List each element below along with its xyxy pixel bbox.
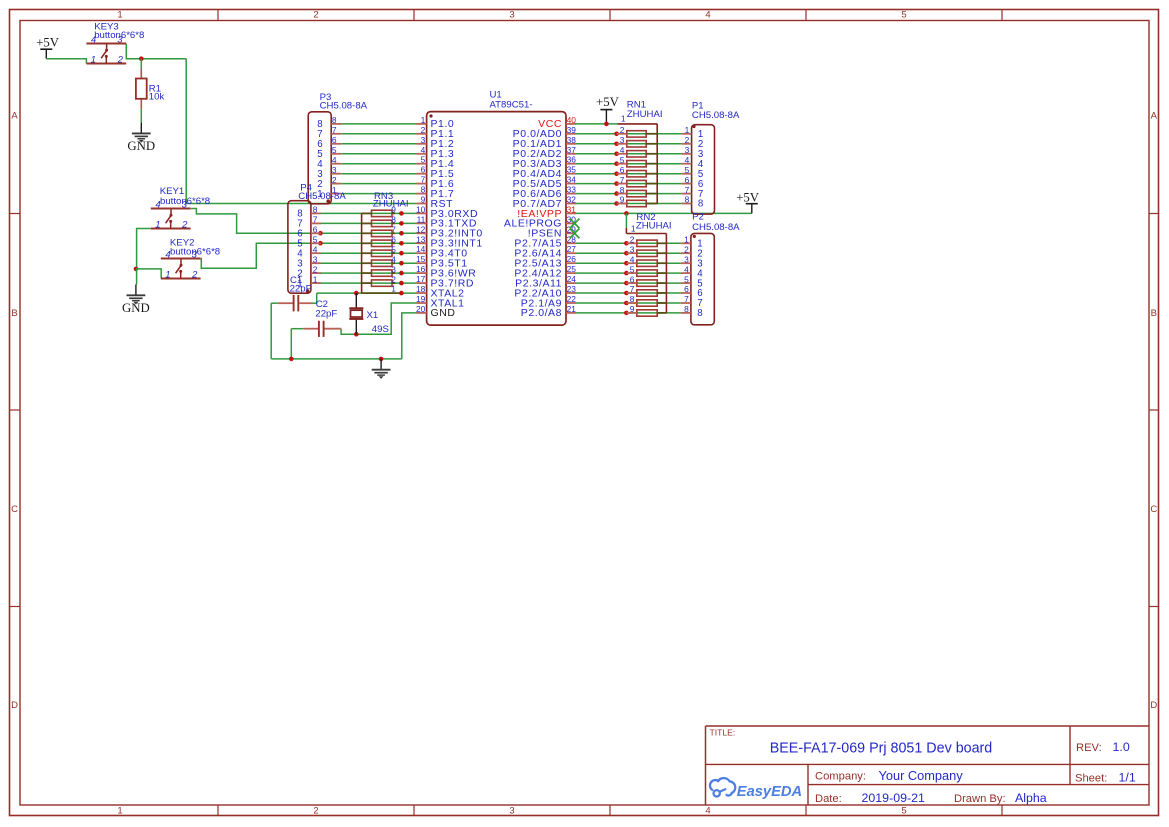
svg-text:1: 1 [621, 113, 626, 123]
svg-text:CH5.08-8A: CH5.08-8A [692, 110, 740, 121]
svg-text:8: 8 [620, 185, 625, 195]
svg-text:6: 6 [391, 235, 396, 245]
svg-text:2: 2 [421, 125, 426, 135]
no-connect marks pins 30/29 [570, 219, 580, 239]
svg-text:+5V: +5V [596, 95, 620, 109]
svg-text:11: 11 [417, 214, 426, 224]
svg-text:21: 21 [567, 304, 577, 314]
svg-text:49S: 49S [372, 324, 389, 335]
svg-text:7: 7 [391, 225, 396, 235]
svg-text:22: 22 [567, 294, 577, 304]
capacitor C1 [278, 295, 313, 312]
title text [770, 741, 993, 757]
wires P3 to U1 P1.0-P1.7 [341, 124, 416, 194]
svg-text:12: 12 [416, 224, 426, 234]
company field [815, 768, 963, 783]
svg-text:2: 2 [313, 806, 318, 817]
svg-text:7: 7 [332, 125, 337, 135]
P2 labels [692, 212, 740, 233]
P3 anchor dot [326, 199, 330, 203]
svg-text:8: 8 [698, 199, 703, 210]
wire VCC to +5V [576, 123, 617, 125]
P1 anchor dot [692, 125, 695, 128]
junction X1 top [354, 291, 359, 296]
wire C2 to XTAL1 [341, 303, 416, 334]
connector P3 [308, 112, 341, 204]
KEY3 labels [94, 21, 144, 41]
KEY3 pin numbers [91, 34, 124, 65]
P4 labels [298, 183, 346, 203]
svg-text:18: 18 [416, 284, 426, 294]
svg-text:1: 1 [91, 54, 96, 65]
svg-text:5: 5 [391, 244, 396, 254]
svg-text:10: 10 [416, 204, 426, 214]
svg-text:38: 38 [567, 135, 577, 145]
svg-text:Drawn By:: Drawn By: [954, 793, 1006, 805]
svg-text:Date:: Date: [815, 793, 842, 805]
svg-text:1: 1 [117, 10, 122, 21]
wire C1 to GND rail [270, 303, 272, 359]
R1 labels [149, 83, 165, 102]
svg-text:GND: GND [122, 301, 150, 315]
wire C1 right [313, 302, 317, 304]
junction X1 bottom [354, 332, 359, 337]
svg-text:4: 4 [391, 254, 396, 264]
P4 pin numbers [297, 205, 317, 290]
svg-text:16: 16 [416, 264, 426, 274]
svg-text:6: 6 [685, 175, 690, 185]
junction GND rail [379, 357, 384, 362]
svg-text:B: B [11, 308, 17, 319]
P3 pin numbers [317, 115, 337, 200]
junction RN2 pin1 [624, 211, 629, 216]
svg-text:2: 2 [684, 244, 689, 254]
X1 labels [367, 310, 389, 335]
IC U1 AT89C51 [417, 112, 577, 326]
svg-text:4: 4 [332, 155, 337, 165]
U1 left pin numbers [416, 115, 426, 314]
svg-text:8: 8 [684, 304, 689, 314]
svg-text:5: 5 [421, 155, 426, 165]
svg-text:23: 23 [567, 284, 577, 294]
junction node KEY GND [134, 267, 139, 272]
svg-text:button6*6*8: button6*6*8 [94, 30, 144, 41]
U1 right pin names [504, 118, 562, 319]
svg-text:Alpha: Alpha [1015, 791, 1047, 805]
svg-text:1/1: 1/1 [1119, 771, 1136, 785]
pushbutton KEY3 [86, 44, 126, 64]
junction C2 GND [289, 357, 294, 362]
svg-text:Sheet:: Sheet: [1075, 773, 1107, 785]
svg-text:2: 2 [332, 175, 337, 185]
wire GND rail to U1 GND pin [402, 313, 417, 359]
svg-text:4: 4 [705, 806, 710, 817]
svg-text:4: 4 [620, 145, 625, 155]
wire +5V to KEY3 pin1 [46, 59, 86, 64]
RN3 pin numbers [391, 205, 396, 294]
wires U1 P0 port to RN1 and P1 [576, 134, 682, 204]
svg-text:5: 5 [685, 165, 690, 175]
svg-text:3: 3 [509, 806, 514, 817]
U1 right pin numbers [567, 115, 577, 314]
svg-text:2: 2 [630, 235, 635, 245]
capacitor C2 [303, 321, 341, 337]
C2 labels [315, 299, 337, 320]
U1 anchor dot [429, 114, 432, 117]
svg-text:1: 1 [165, 269, 170, 280]
svg-text:1: 1 [391, 284, 396, 294]
KEY2 pin numbers [165, 249, 198, 280]
svg-text:C: C [11, 504, 18, 515]
svg-text:EasyEDA: EasyEDA [737, 784, 802, 800]
wire KEY1 pin1 to GND node [137, 229, 151, 269]
svg-text:3: 3 [509, 10, 514, 21]
wires P4 to RN3 to U1 P3.0-P3.7 [320, 213, 416, 283]
svg-text:ZHUHAI: ZHUHAI [636, 220, 672, 231]
title label [710, 728, 736, 738]
wire C2 left [291, 328, 303, 330]
P3 labels [320, 92, 368, 111]
svg-text:3: 3 [391, 264, 396, 274]
svg-text:7: 7 [620, 175, 625, 185]
svg-text:Company:: Company: [815, 771, 866, 783]
svg-text:7: 7 [421, 175, 426, 185]
svg-text:40: 40 [567, 115, 577, 125]
svg-text:3: 3 [685, 145, 690, 155]
svg-text:35: 35 [567, 165, 577, 175]
svg-text:9: 9 [620, 195, 625, 205]
svg-text:8: 8 [421, 185, 426, 195]
wires U1 P2 port to RN2 and P2 [576, 243, 681, 313]
wire C1 left [271, 302, 278, 304]
wire XTAL2 net [317, 293, 417, 303]
wire R1 top [140, 59, 142, 69]
svg-text:3: 3 [684, 254, 689, 264]
svg-text:6: 6 [313, 225, 318, 235]
resistor R1 [136, 69, 147, 109]
svg-text:6: 6 [684, 284, 689, 294]
svg-text:2: 2 [181, 219, 188, 230]
REV field [1076, 740, 1130, 754]
junctions RN2 pins [624, 241, 629, 315]
svg-text:button6*6*8: button6*6*8 [160, 196, 210, 207]
svg-text:4: 4 [685, 155, 690, 165]
svg-text:8: 8 [685, 195, 690, 205]
svg-text:GND: GND [127, 139, 155, 153]
svg-text:2: 2 [191, 269, 198, 280]
RN2 labels [636, 212, 672, 232]
svg-text:37: 37 [567, 145, 577, 155]
svg-text:8: 8 [697, 308, 702, 319]
RN1 pin numbers [620, 113, 626, 204]
svg-text:31: 31 [567, 204, 577, 214]
svg-text:D: D [1150, 700, 1157, 711]
svg-text:6: 6 [630, 274, 635, 284]
pushbutton KEY1 [151, 209, 191, 229]
svg-text:17: 17 [416, 274, 426, 284]
svg-text:X1: X1 [367, 310, 379, 321]
resistor network RN2 [626, 228, 666, 316]
svg-text:19: 19 [416, 294, 426, 304]
svg-text:1: 1 [421, 115, 426, 125]
date field [815, 791, 1047, 805]
svg-text:1: 1 [685, 125, 690, 135]
svg-text:7: 7 [630, 284, 635, 294]
svg-text:8: 8 [332, 115, 337, 125]
crystal X1 [349, 293, 363, 334]
svg-text:4: 4 [684, 264, 689, 274]
P1 pin numbers [685, 125, 704, 210]
junction node KEY3/R1 [139, 56, 144, 61]
svg-text:BEE-FA17-069 Prj 8051 Dev boar: BEE-FA17-069 Prj 8051 Dev board [770, 741, 993, 757]
svg-text:9: 9 [630, 304, 635, 314]
svg-text:REV:: REV: [1076, 742, 1102, 754]
wire KEY1 pin3 to P4 pin6 [191, 209, 321, 234]
svg-text:6: 6 [421, 165, 426, 175]
junctions RN3 pins [399, 211, 404, 295]
svg-text:2: 2 [313, 264, 318, 274]
svg-text:A: A [1151, 111, 1158, 122]
svg-text:+5V: +5V [736, 191, 760, 205]
svg-text:GND: GND [431, 307, 456, 319]
svg-text:10k: 10k [149, 92, 165, 103]
wire GND rail [271, 358, 402, 360]
svg-text:34: 34 [567, 175, 577, 185]
P1 labels [692, 101, 740, 121]
svg-text:24: 24 [567, 274, 577, 284]
svg-text:Your Company: Your Company [879, 768, 964, 783]
U1 left pin names [431, 118, 483, 319]
svg-text:ZHUHAI: ZHUHAI [373, 199, 409, 210]
svg-text:1: 1 [313, 274, 318, 284]
wire RN2 pin1 drop [625, 213, 627, 228]
svg-text:1.0: 1.0 [1113, 740, 1130, 754]
svg-text:6: 6 [620, 165, 625, 175]
U1 labels [490, 90, 533, 111]
svg-text:CH5.08-8A: CH5.08-8A [692, 222, 740, 233]
svg-text:27: 27 [567, 244, 577, 254]
RN2 pin numbers [630, 224, 636, 315]
svg-text:5: 5 [313, 235, 318, 245]
sheet field [1075, 771, 1136, 785]
svg-text:B: B [1151, 308, 1157, 319]
svg-text:3: 3 [421, 135, 426, 145]
connector P4 [288, 201, 321, 294]
svg-text:TITLE:: TITLE: [710, 728, 736, 738]
svg-text:+5V: +5V [36, 35, 60, 49]
title block lines [706, 726, 1150, 805]
ground GND (R1) [127, 123, 155, 153]
svg-text:5: 5 [901, 806, 906, 817]
junction P4 pin5 [318, 241, 323, 246]
EasyEDA logo [710, 778, 802, 800]
svg-text:7: 7 [313, 215, 318, 225]
resistor network RN1 [617, 124, 658, 207]
ground (crystal) [372, 359, 391, 379]
svg-text:4: 4 [313, 244, 318, 254]
svg-text:button6*6*8: button6*6*8 [170, 247, 220, 258]
KEY1 labels [160, 186, 210, 207]
wire KEY3 pin3 to RST net [126, 44, 186, 59]
svg-text:D: D [11, 700, 18, 711]
junctions RN1 pins [614, 132, 619, 206]
junction P4 pin6 [318, 231, 323, 236]
svg-text:14: 14 [416, 244, 426, 254]
svg-text:25: 25 [567, 264, 577, 274]
svg-text:15: 15 [416, 254, 426, 264]
svg-text:8: 8 [391, 215, 396, 225]
wire GND node down [136, 269, 138, 285]
P2 anchor dot [693, 235, 696, 238]
svg-text:8: 8 [313, 205, 318, 215]
wire GND node to KEY2 pin1 [136, 269, 161, 278]
ground GND (keys) [122, 285, 150, 315]
svg-text:CH5.08-8A: CH5.08-8A [298, 191, 346, 202]
svg-text:5: 5 [620, 155, 625, 165]
svg-text:1: 1 [684, 235, 689, 245]
svg-text:9: 9 [421, 195, 426, 205]
wire C2 to GND rail [290, 329, 292, 359]
svg-text:P2: P2 [692, 212, 704, 223]
wire !EA!VPP to +5V [576, 212, 752, 214]
svg-text:6: 6 [332, 135, 337, 145]
svg-text:8: 8 [630, 294, 635, 304]
svg-text:CH5.08-8A: CH5.08-8A [320, 101, 368, 112]
connector P2 [681, 233, 714, 324]
svg-text:3: 3 [313, 254, 318, 264]
svg-text:32: 32 [567, 195, 577, 205]
pushbutton KEY2 [161, 259, 201, 279]
svg-text:7: 7 [684, 294, 689, 304]
svg-text:7: 7 [685, 185, 690, 195]
svg-text:22pF: 22pF [290, 284, 312, 295]
svg-text:2: 2 [620, 125, 625, 135]
svg-text:3: 3 [332, 165, 337, 175]
svg-text:22pF: 22pF [315, 309, 337, 320]
svg-text:2019-09-21: 2019-09-21 [862, 791, 925, 805]
svg-text:26: 26 [567, 254, 577, 264]
svg-text:5: 5 [901, 10, 906, 21]
wire RST vertical run [186, 59, 416, 204]
svg-text:3: 3 [630, 244, 635, 254]
power flag +5V (VCC) [596, 95, 620, 124]
svg-text:1: 1 [155, 219, 160, 230]
svg-text:5: 5 [332, 145, 337, 155]
connector P1 [682, 125, 715, 214]
svg-text:2: 2 [313, 10, 318, 21]
svg-text:2: 2 [685, 135, 690, 145]
wire KEY2 pin3 to P4 pin5 [201, 243, 321, 268]
svg-text:3: 3 [620, 135, 625, 145]
resistor network RN3 [362, 210, 402, 293]
svg-text:13: 13 [416, 234, 426, 244]
svg-text:5: 5 [630, 264, 635, 274]
svg-text:AT89C51-: AT89C51- [490, 99, 533, 110]
junction VCC +5V [604, 122, 609, 127]
svg-text:4: 4 [630, 254, 635, 264]
svg-text:4: 4 [421, 145, 426, 155]
P4 anchor dot [306, 289, 310, 293]
C1 labels [290, 275, 312, 295]
svg-text:36: 36 [567, 155, 577, 165]
wire R1 bottom to GND [140, 109, 142, 123]
svg-text:1: 1 [117, 806, 122, 817]
P2 pin numbers [684, 235, 703, 320]
svg-text:C: C [1150, 504, 1157, 515]
svg-text:ZHUHAI: ZHUHAI [627, 109, 663, 120]
svg-text:A: A [11, 111, 18, 122]
KEY1 pin numbers [155, 199, 188, 230]
svg-text:4: 4 [705, 10, 710, 21]
RN3 labels [373, 191, 409, 210]
power flag +5V (EA) [736, 191, 760, 214]
RN1 labels [627, 99, 663, 120]
svg-text:20: 20 [416, 304, 426, 314]
svg-text:39: 39 [567, 125, 577, 135]
KEY2 labels [170, 237, 220, 257]
svg-text:2: 2 [117, 54, 124, 65]
svg-text:33: 33 [567, 185, 577, 195]
svg-text:P2.0/A8: P2.0/A8 [521, 307, 562, 319]
svg-text:5: 5 [684, 274, 689, 284]
power flag +5V (top left) [36, 35, 60, 58]
